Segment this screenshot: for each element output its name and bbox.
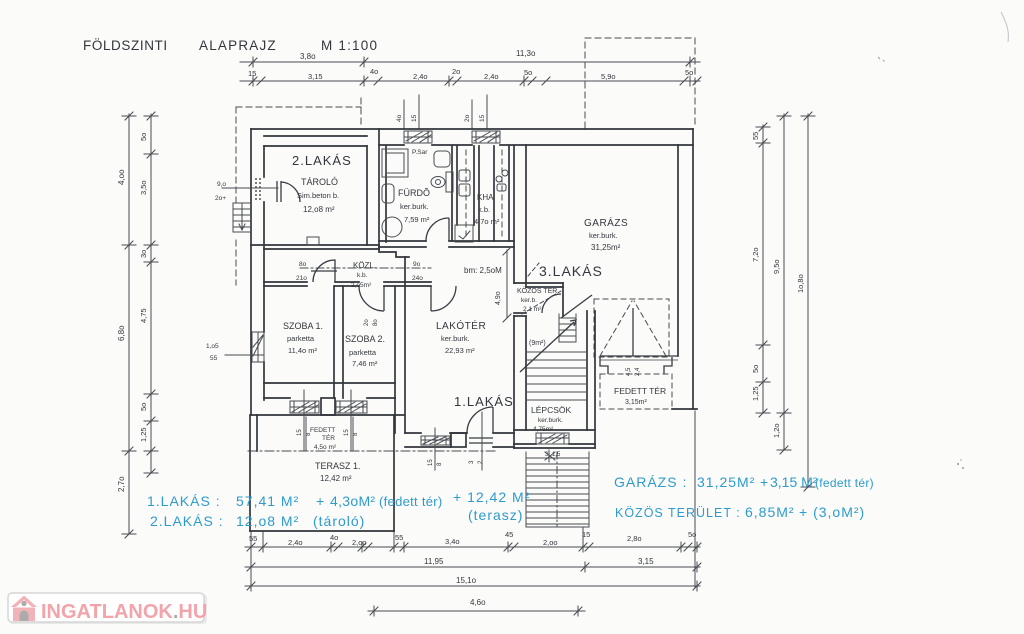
svg-text:1,2o: 1,2o — [772, 423, 781, 438]
svg-text:1,o5: 1,o5 — [206, 343, 219, 350]
svg-text:3,15: 3,15 — [308, 72, 323, 81]
svg-text:5o: 5o — [524, 68, 532, 77]
svg-text:4,75m²: 4,75m² — [533, 426, 554, 433]
top dimension line A — [240, 57, 700, 67]
szoba2 east wall — [395, 257, 405, 433]
svg-text:15: 15 — [248, 69, 256, 78]
svg-text:5o: 5o — [139, 133, 148, 141]
building SE corner — [672, 408, 697, 410]
svg-text:k.b.: k.b. — [357, 272, 368, 279]
svg-text:5,9o: 5,9o — [601, 72, 616, 81]
svg-text:INGATLANOK.HU: INGATLANOK.HU — [41, 601, 207, 623]
svg-text:2,4o: 2,4o — [484, 72, 499, 81]
svg-text:GARÁZS: GARÁZS — [584, 216, 628, 229]
svg-text:TERASZ 1.: TERASZ 1. — [315, 461, 361, 471]
svg-text:bm: 2,5oM: bm: 2,5oM — [464, 266, 502, 275]
svg-text:KÖZÖS TÉR: KÖZÖS TÉR — [517, 286, 557, 295]
szoba window W4 — [290, 401, 319, 413]
svg-text:2.LAKÁS :12,o8 M²(tároló): 2.LAKÁS :12,o8 M²(tároló) — [150, 513, 365, 529]
scan speck dots — [957, 463, 959, 465]
main interior stair flight — [526, 352, 587, 400]
svg-text:15: 15 — [411, 114, 418, 122]
KHA fixtures — [496, 176, 502, 182]
svg-text:45: 45 — [505, 530, 513, 539]
svg-text:4o: 4o — [330, 533, 338, 542]
dashed roof outline top-left — [236, 98, 361, 202]
szoba divider wall — [334, 286, 343, 398]
shaft bottom box with check — [455, 225, 473, 242]
svg-text:24o: 24o — [412, 275, 423, 282]
svg-text:15,1o: 15,1o — [456, 576, 477, 585]
svg-text:KÖZÖS TERÜLET :6,85M²+ (3,oM²): KÖZÖS TERÜLET :6,85M²+ (3,oM²) — [615, 504, 865, 520]
svg-text:2,o5m²: 2,o5m² — [351, 282, 372, 289]
svg-text:9,5o: 9,5o — [772, 259, 781, 274]
svg-text:5o: 5o — [751, 365, 760, 373]
window W1 in top wall — [404, 131, 432, 143]
svg-text:3,8o: 3,8o — [300, 52, 316, 61]
svg-text:FÜRDÕ: FÜRDÕ — [398, 188, 430, 198]
svg-text:9o: 9o — [413, 261, 421, 268]
svg-text:12,o8 m²: 12,o8 m² — [303, 205, 335, 214]
lakoter door D5 from corridor — [431, 286, 456, 311]
bathroom bottom wall — [379, 241, 514, 247]
svg-text:Sim.beton b.: Sim.beton b. — [297, 191, 339, 200]
svg-text:2o+: 2o+ — [215, 195, 226, 202]
outer top wall — [251, 129, 693, 146]
WC cistern box — [434, 151, 450, 167]
svg-text:4,5o m²: 4,5o m² — [314, 444, 337, 451]
entrance dim labels 90/200 — [222, 187, 278, 189]
svg-text:2,4o: 2,4o — [413, 72, 428, 81]
svg-text:(9m²): (9m²) — [529, 340, 546, 347]
corridor north jog wall — [379, 247, 409, 257]
svg-text:15: 15 — [297, 429, 303, 436]
szoba1 door D3 — [311, 260, 337, 282]
svg-text:4,oo: 4,oo — [117, 169, 126, 185]
svg-text:TÁROLÓ: TÁROLÓ — [301, 177, 338, 187]
svg-text:ker.burk.: ker.burk. — [400, 202, 429, 211]
svg-text:M 1:100: M 1:100 — [321, 38, 378, 53]
entrance door D1 — [256, 178, 300, 202]
svg-text:2,oo: 2,oo — [352, 538, 367, 547]
svg-text:2,1 m²: 2,1 m² — [523, 306, 542, 313]
svg-text:2,8o: 2,8o — [627, 534, 642, 543]
lakoter interior dim 4,90 — [503, 247, 511, 322]
1.lakas pier box — [451, 433, 466, 447]
svg-text:SZOBA 1.: SZOBA 1. — [283, 321, 323, 331]
window dim guides above top wall — [404, 95, 487, 128]
stair room west wall — [514, 316, 526, 448]
svg-text:1,25: 1,25 — [139, 427, 148, 442]
dashed roof outline top-right over garage — [585, 38, 695, 128]
window W3 in west wall — [252, 332, 264, 362]
1.lakas front wall — [405, 433, 514, 447]
kozos ter door arc — [542, 294, 561, 313]
svg-text:11,95: 11,95 — [424, 557, 444, 566]
bottom dimension line 3 — [245, 581, 701, 591]
toilet bowl — [431, 177, 445, 188]
pier between szoba windows — [321, 398, 335, 415]
svg-text:2.LAKÁS: 2.LAKÁS — [292, 153, 352, 168]
garage east wall — [678, 129, 693, 409]
szoba window dim guides — [304, 390, 351, 450]
svg-text:KHA: KHA — [477, 193, 494, 202]
chimney notch on tarolo wall — [307, 237, 319, 245]
svg-text:7,59 m²: 7,59 m² — [404, 215, 430, 224]
garage west wall — [514, 145, 526, 287]
dashed outline left lower segment — [235, 240, 237, 285]
svg-text:8o: 8o — [299, 261, 307, 268]
svg-text:4,9o: 4,9o — [495, 291, 502, 305]
szoba interior north line — [264, 382, 395, 384]
svg-text:LÉPCSÖK: LÉPCSÖK — [531, 405, 571, 415]
svg-text:ker.burk.: ker.burk. — [589, 231, 618, 240]
entry steps outside — [233, 203, 251, 232]
kozos ter room walls — [514, 283, 563, 316]
kozos ter diagonal dashed — [522, 291, 561, 314]
1.lakas window dim guides — [435, 412, 482, 470]
west outer wall — [251, 129, 264, 415]
svg-text:P.Sar: P.Sar — [412, 149, 428, 156]
svg-text:ker.burk.: ker.burk. — [538, 417, 563, 424]
garage roof overhang dashed with gable — [594, 299, 669, 357]
bath door D2 — [426, 218, 449, 241]
KHA east plumbing wall — [494, 146, 509, 241]
shaft wall between bath and KHA — [452, 146, 479, 241]
svg-text:ker.burk.: ker.burk. — [441, 334, 470, 343]
svg-text:parketta: parketta — [349, 348, 377, 357]
svg-text:12,42 m²: 12,42 m² — [320, 474, 352, 483]
tarolo right wall — [367, 129, 379, 249]
svg-text:KÖZL.: KÖZL. — [353, 261, 376, 270]
svg-text:LAKÓTÉR: LAKÓTÉR — [436, 319, 486, 332]
svg-text:4,5: 4,5 — [626, 367, 632, 376]
svg-text:TÉR: TÉR — [322, 433, 335, 442]
svg-text:(terasz): (terasz) — [468, 507, 523, 523]
svg-text:2,oo: 2,oo — [543, 538, 558, 547]
svg-text:2,4: 2,4 — [635, 367, 641, 376]
window W2 in top wall — [472, 131, 500, 143]
svg-text:11,3o: 11,3o — [516, 49, 536, 58]
upper stair steps — [559, 314, 576, 342]
svg-text:SZOBA 2.: SZOBA 2. — [345, 334, 385, 344]
terrace top dash-dot line — [248, 450, 496, 452]
svg-text:3o: 3o — [139, 250, 148, 258]
svg-text:3,4o: 3,4o — [445, 537, 460, 546]
svg-text:3,15: 3,15 — [638, 557, 654, 566]
svg-text:21o: 21o — [296, 275, 307, 282]
svg-text:55: 55 — [210, 355, 218, 362]
svg-text:8o: 8o — [373, 319, 379, 326]
right dimension line 3 — [801, 112, 815, 491]
bottom dimension line 4 — [368, 606, 585, 616]
svg-text:7,2o: 7,2o — [751, 247, 760, 262]
bottom dim guide extension lines — [251, 411, 695, 588]
right dimension line 2 — [777, 112, 791, 454]
3.lakas dashed leader — [528, 263, 539, 276]
fedett ter lower outline — [600, 357, 672, 374]
svg-text:22,93 m²: 22,93 m² — [445, 346, 475, 355]
svg-text:31,25m²: 31,25m² — [591, 243, 621, 252]
bottom dimension line 2 — [245, 562, 701, 572]
svg-text:3,5o: 3,5o — [139, 180, 148, 195]
bathroom west wall — [385, 146, 387, 242]
top dimension line B — [240, 76, 701, 86]
svg-text:7,46 m²: 7,46 m² — [352, 359, 378, 368]
svg-text:parketta: parketta — [287, 334, 315, 343]
gable centre post — [632, 308, 634, 356]
shower tray — [382, 149, 408, 177]
svg-text:55: 55 — [395, 533, 403, 542]
svg-text:FEDETT: FEDETT — [310, 427, 335, 434]
svg-text:2,7o: 2,7o — [117, 476, 126, 492]
svg-text:9,o: 9,o — [217, 181, 226, 188]
garage door front line — [600, 356, 678, 360]
window W3 dim leader — [225, 354, 264, 356]
shaft fixtures — [459, 170, 470, 181]
szoba2 door D4 — [359, 286, 384, 311]
svg-text:3,15m²: 3,15m² — [625, 399, 647, 406]
svg-text:2,4o: 2,4o — [288, 538, 303, 547]
svg-text:3.LAKÁS: 3.LAKÁS — [539, 263, 603, 279]
1.lakas door D6 — [467, 407, 493, 443]
washbasin — [382, 184, 394, 203]
watermark house icon — [11, 596, 37, 622]
right dimension line 1 — [756, 123, 770, 417]
svg-text:1,25: 1,25 — [751, 386, 760, 401]
svg-text:55: 55 — [751, 132, 760, 140]
svg-text:ker.b.: ker.b. — [521, 297, 537, 304]
svg-text:ALAPRAJZ: ALAPRAJZ — [199, 38, 277, 53]
svg-text:4o: 4o — [370, 67, 378, 76]
svg-text:6,8o: 6,8o — [117, 325, 126, 341]
exterior stairs — [526, 452, 589, 527]
svg-text:2o: 2o — [464, 114, 471, 122]
terrace walls — [250, 415, 394, 531]
left dimension line outer — [122, 112, 136, 538]
1.lakas window W6 — [421, 436, 450, 445]
svg-text:k.b.: k.b. — [478, 205, 490, 214]
washing machine circle — [382, 217, 402, 237]
stair direction arrow — [520, 320, 576, 372]
svg-text:2o: 2o — [452, 67, 460, 76]
svg-text:4,7o m²: 4,7o m² — [474, 217, 500, 226]
svg-text:FÖLDSZINTI: FÖLDSZINTI — [83, 38, 168, 53]
stair room east wall — [587, 311, 595, 448]
bottom dimension line 1 — [245, 542, 701, 552]
svg-text:15: 15 — [344, 429, 350, 436]
left dimension line inner — [144, 112, 158, 477]
porch fedett ter dashed bounds — [306, 417, 353, 450]
3.lakas ramp diagonal — [561, 295, 592, 318]
svg-text:4o: 4o — [396, 114, 403, 122]
scan scratch top right — [1001, 12, 1008, 42]
svg-text:4,75: 4,75 — [139, 308, 148, 323]
tarolo bottom wall — [251, 245, 379, 249]
stair block bottom wall — [514, 430, 595, 448]
szoba top wall / corridor south wall — [264, 282, 431, 286]
svg-text:1o,8o: 1o,8o — [796, 274, 805, 293]
svg-text:5o: 5o — [139, 403, 148, 411]
szoba front wall — [251, 398, 404, 415]
svg-text:5o: 5o — [685, 68, 693, 77]
svg-text:11,4o m²: 11,4o m² — [288, 346, 318, 355]
watermark box — [8, 593, 207, 624]
svg-text:FEDETT TÉR: FEDETT TÉR — [614, 386, 666, 396]
svg-text:1.LAKÁS: 1.LAKÁS — [454, 394, 514, 409]
svg-text:4,6o: 4,6o — [470, 598, 486, 607]
corridor centre dash-dot — [300, 267, 431, 269]
szoba window W5 — [336, 401, 367, 413]
svg-text:2o: 2o — [364, 319, 370, 326]
svg-text:55: 55 — [249, 534, 257, 543]
stair block door/window — [536, 433, 569, 444]
svg-text:GARÁZS :31,25M²+3,15 M²(fedett: GARÁZS :31,25M²+3,15 M²(fedett tér) — [614, 474, 874, 490]
svg-text:15: 15 — [479, 114, 486, 122]
svg-text:15: 15 — [428, 459, 434, 466]
